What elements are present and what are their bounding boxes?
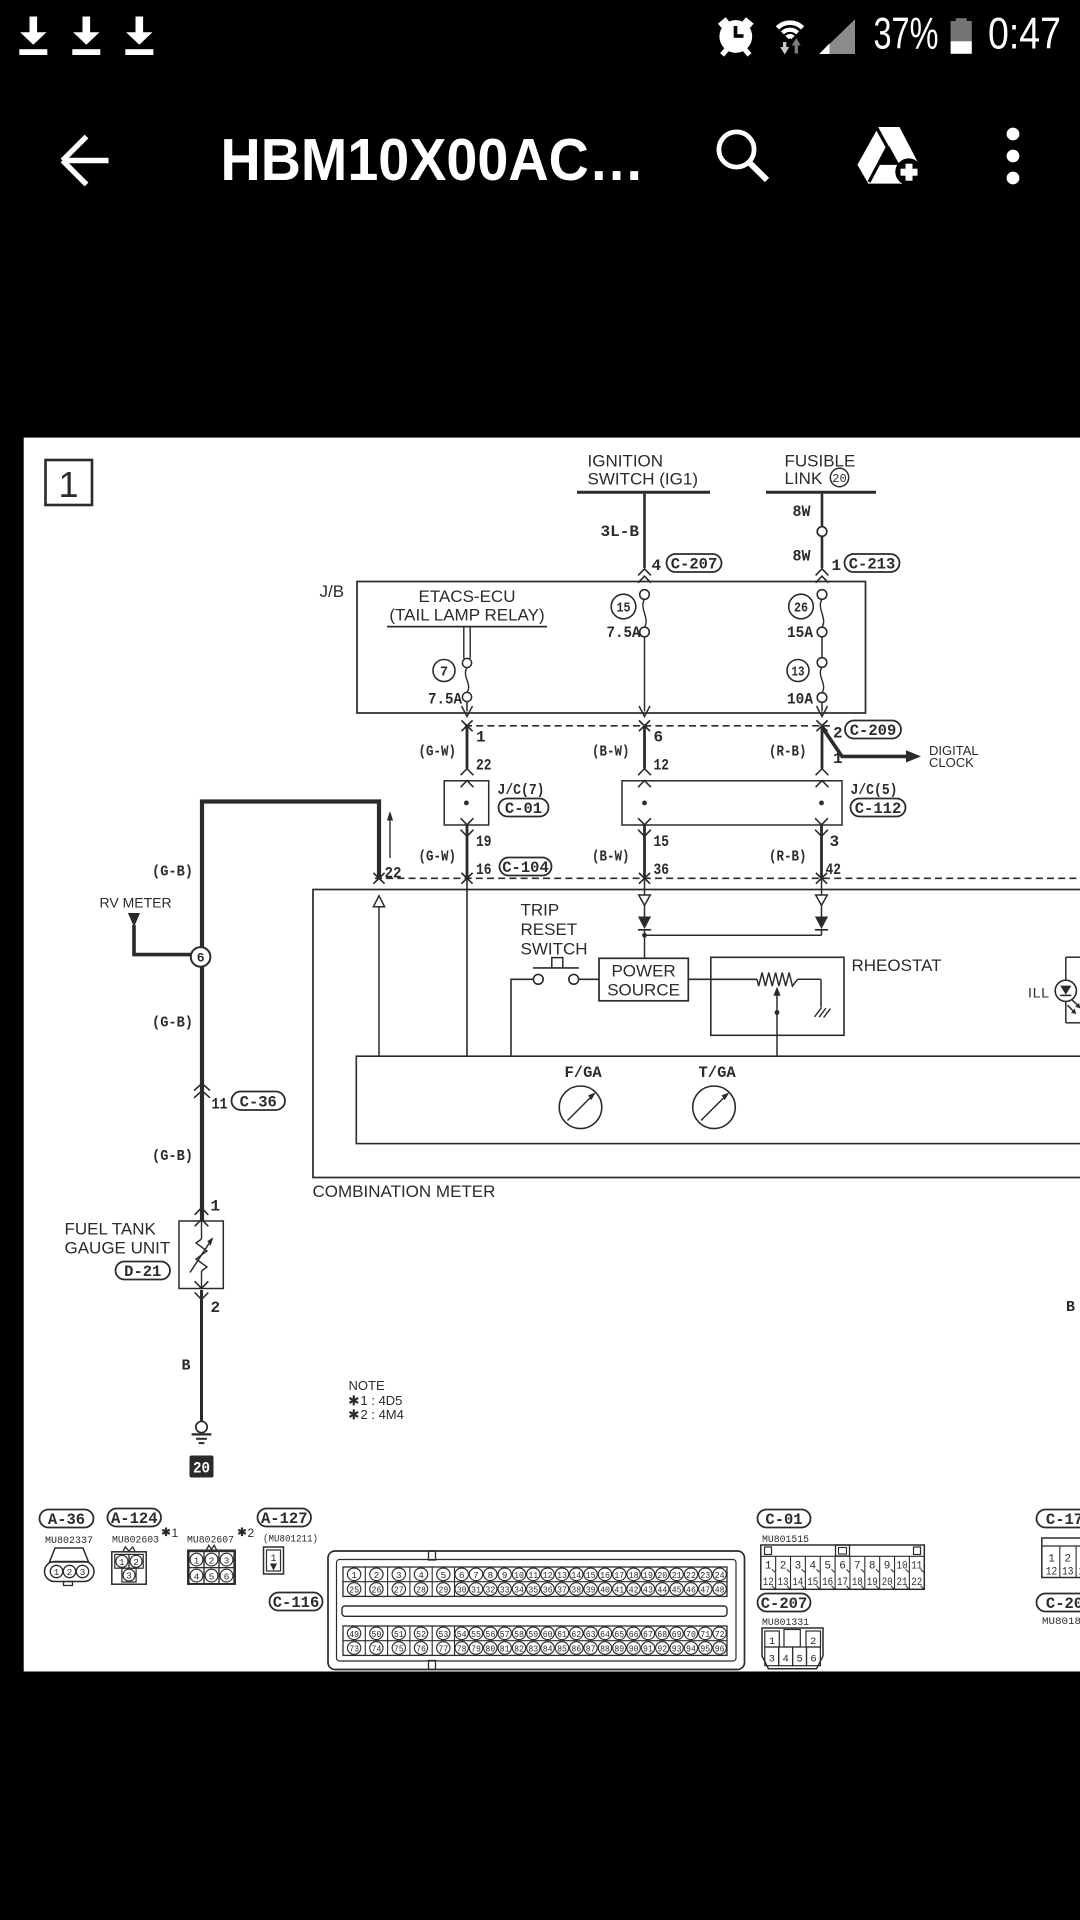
app bar back arrow <box>63 137 109 185</box>
ignition switch IG1 label <box>588 452 699 489</box>
svg-text:83: 83 <box>528 1643 538 1654</box>
svg-text:79: 79 <box>471 1643 481 1654</box>
J/B label <box>320 582 345 601</box>
svg-text:4: 4 <box>809 1560 816 1572</box>
svg-text:91: 91 <box>643 1643 653 1654</box>
fuse 15 <box>607 590 650 712</box>
svg-text:5: 5 <box>824 1560 831 1572</box>
svg-text:FUSIBLE: FUSIBLE <box>785 452 856 471</box>
svg-text:C-207: C-207 <box>671 556 718 574</box>
svg-text:30: 30 <box>457 1584 467 1595</box>
connector C-116 label <box>270 1593 323 1613</box>
svg-text:71: 71 <box>700 1629 710 1640</box>
svg-text:22: 22 <box>385 865 402 883</box>
fuse 7 <box>428 660 472 712</box>
svg-text:RESET: RESET <box>521 920 578 939</box>
dashed connector line C-209 row <box>465 725 830 727</box>
svg-text:41: 41 <box>614 1584 624 1595</box>
svg-text:C-17: C-17 <box>1046 1511 1080 1529</box>
app bar overflow menu icon <box>1007 128 1020 185</box>
chevrons at C-36 <box>194 1084 210 1098</box>
wire G-W inside meter <box>466 879 468 1056</box>
svg-text:MU802337: MU802337 <box>45 1535 93 1547</box>
svg-text:RV METER: RV METER <box>100 895 172 911</box>
crossing G-W at C-209 <box>461 720 472 731</box>
connector C-207 label <box>758 1594 811 1614</box>
svg-text:7: 7 <box>473 1570 479 1581</box>
svg-text:(MU801211): (MU801211) <box>263 1534 318 1546</box>
sheet number box 1 <box>46 460 93 505</box>
svg-text:3: 3 <box>795 1560 802 1572</box>
svg-text:93: 93 <box>672 1643 682 1654</box>
svg-text:(G-W): (G-W) <box>419 744 457 761</box>
svg-text:J/C(5): J/C(5) <box>851 782 898 799</box>
svg-text:1: 1 <box>270 1554 276 1565</box>
wire (G-B) middle run <box>200 967 204 1221</box>
svg-text:53: 53 <box>438 1629 448 1640</box>
svg-text:61: 61 <box>557 1629 567 1640</box>
svg-text:72: 72 <box>715 1629 725 1640</box>
svg-text:TRIP: TRIP <box>521 901 560 920</box>
connector C-17 label <box>1037 1510 1080 1530</box>
connector C-01 label <box>758 1510 811 1530</box>
svg-text:POWER: POWER <box>611 962 675 981</box>
svg-text:MU802607: MU802607 <box>187 1535 234 1547</box>
svg-text:3: 3 <box>80 1567 86 1578</box>
svg-text:22: 22 <box>686 1570 696 1581</box>
wire label (G-B) mid <box>152 1015 193 1032</box>
svg-text:5: 5 <box>209 1571 215 1582</box>
thick wire (G-B) top run <box>202 802 379 948</box>
svg-text:25: 25 <box>349 1584 359 1595</box>
svg-text:1: 1 <box>1048 1554 1055 1566</box>
svg-text:24: 24 <box>715 1570 725 1581</box>
svg-text:SOURCE: SOURCE <box>607 981 680 1000</box>
svg-text:C-116: C-116 <box>273 1594 320 1612</box>
svg-text:1: 1 <box>58 464 78 505</box>
svg-text:20: 20 <box>882 1577 893 1589</box>
svg-text:22: 22 <box>476 757 492 775</box>
power source box <box>599 958 688 1001</box>
J/B exit chevron B-W <box>639 706 650 717</box>
svg-text:64: 64 <box>600 1629 610 1640</box>
svg-text:42: 42 <box>629 1584 639 1595</box>
svg-text:48: 48 <box>715 1584 725 1595</box>
crossing marks at C-104 row <box>373 873 827 884</box>
ETACS relay output wire <box>462 627 471 667</box>
svg-text:B: B <box>182 1358 191 1375</box>
svg-text:13: 13 <box>778 1577 789 1589</box>
svg-text:21: 21 <box>672 1570 682 1581</box>
svg-text:12: 12 <box>654 757 670 775</box>
svg-text:2: 2 <box>1064 1554 1071 1566</box>
svg-text:A-36: A-36 <box>48 1511 85 1529</box>
svg-text:22: 22 <box>911 1577 922 1589</box>
svg-text:1: 1 <box>832 557 842 575</box>
connector A-124 label <box>108 1509 162 1529</box>
gauge T/GA <box>693 1064 737 1129</box>
svg-text:LINK: LINK <box>785 469 823 488</box>
svg-text:C-104: C-104 <box>502 859 549 877</box>
status bar wifi icon <box>777 23 802 55</box>
fuel sender variable resistor <box>190 1221 213 1289</box>
svg-text:ETACS-ECU: ETACS-ECU <box>419 587 516 606</box>
status bar battery icon <box>951 18 972 54</box>
svg-text:55: 55 <box>471 1629 481 1640</box>
status bar signal icon <box>819 19 855 54</box>
note block <box>349 1378 404 1422</box>
junction connector J/C(5) <box>622 781 906 825</box>
fuel gauge pin 2 <box>195 1281 220 1317</box>
meter inner gauge box <box>356 1056 1080 1143</box>
status bar alarm clock icon <box>718 17 754 56</box>
status bar download icon 3 <box>125 17 153 56</box>
svg-text:J/B: J/B <box>320 582 345 601</box>
svg-text:(G-B): (G-B) <box>152 864 193 881</box>
svg-text:16: 16 <box>476 861 492 879</box>
svg-text:88: 88 <box>600 1643 610 1654</box>
svg-text:C-20: C-20 <box>1046 1595 1080 1613</box>
svg-text:2: 2 <box>211 1299 221 1317</box>
connector C-213 <box>845 554 900 574</box>
svg-text:11: 11 <box>212 1096 228 1114</box>
svg-text:2: 2 <box>780 1560 787 1572</box>
J/B exit chevron G-W <box>462 706 473 717</box>
svg-text:B: B <box>1066 1299 1075 1316</box>
svg-text:C-213: C-213 <box>849 556 896 574</box>
svg-text:73: 73 <box>349 1643 359 1654</box>
svg-text:1: 1 <box>119 1557 125 1568</box>
svg-text:32: 32 <box>485 1584 495 1595</box>
svg-text:C-01: C-01 <box>505 800 542 818</box>
app bar add-to-drive icon <box>857 127 922 185</box>
svg-text:4: 4 <box>652 557 662 575</box>
svg-text:2: 2 <box>209 1555 215 1566</box>
svg-text:8W: 8W <box>793 548 812 566</box>
fuel tank gauge unit label <box>65 1220 171 1258</box>
svg-text:3: 3 <box>396 1570 402 1581</box>
svg-text:(G-B): (G-B) <box>152 1015 193 1032</box>
junction connector J/C(7) <box>444 781 548 825</box>
svg-text:RHEOSTAT: RHEOSTAT <box>852 956 942 975</box>
svg-text:80: 80 <box>485 1643 495 1654</box>
wire 3L-B <box>601 494 662 583</box>
status bar battery percent text <box>874 9 939 58</box>
ETACS-ECU tail lamp relay label <box>387 587 547 627</box>
svg-text:C-112: C-112 <box>855 800 902 818</box>
svg-text:60: 60 <box>543 1629 553 1640</box>
rheostat box <box>711 956 942 1035</box>
connector C-17 view <box>1042 1538 1080 1579</box>
RV meter stub wire <box>128 913 191 955</box>
wire (R-B) pin1 <box>769 726 828 787</box>
svg-text:8: 8 <box>487 1570 493 1581</box>
svg-text:3L-B: 3L-B <box>601 523 640 541</box>
wire (B-W) pin15/36 <box>592 818 669 879</box>
svg-text:6: 6 <box>810 1654 816 1666</box>
svg-text:1: 1 <box>211 1198 221 1216</box>
svg-text:92: 92 <box>657 1643 667 1654</box>
svg-text:1: 1 <box>194 1555 200 1566</box>
wire (G-W) pin19/16 <box>419 818 492 879</box>
svg-text:8W: 8W <box>793 503 812 521</box>
svg-text:MU801831: MU801831 <box>1042 1616 1080 1628</box>
status bar download icon 2 <box>72 17 100 56</box>
svg-text:7.5A: 7.5A <box>428 691 463 709</box>
svg-text:9: 9 <box>502 1570 508 1581</box>
svg-text:4: 4 <box>194 1571 200 1582</box>
wire (R-B) pin3/42 <box>769 818 841 879</box>
svg-text:J/C(7): J/C(7) <box>498 782 545 799</box>
node 6 circled <box>191 947 211 967</box>
connector D-21 <box>116 1262 171 1282</box>
svg-text:SWITCH: SWITCH <box>521 940 588 959</box>
svg-text:C-207: C-207 <box>761 1595 808 1613</box>
svg-text:45: 45 <box>672 1584 682 1595</box>
svg-text:57: 57 <box>500 1629 510 1640</box>
svg-text:20: 20 <box>657 1570 667 1581</box>
connector MU802607 part number <box>187 1526 255 1547</box>
svg-text:2: 2 <box>810 1636 816 1648</box>
wire label (G-B) upper <box>152 864 193 881</box>
ground number 20 <box>190 1456 214 1478</box>
digital clock branch wire <box>822 727 979 770</box>
svg-text:1: 1 <box>54 1567 60 1578</box>
diode right <box>815 879 828 935</box>
svg-text:43: 43 <box>643 1584 653 1595</box>
svg-text:1 : 4D5: 1 : 4D5 <box>361 1393 403 1408</box>
svg-text:26: 26 <box>794 601 808 617</box>
svg-text:15: 15 <box>586 1570 596 1581</box>
dashed connector line C-104 row <box>375 877 1080 879</box>
status bar download icon 1 <box>19 17 47 56</box>
connector C-20 part number <box>1042 1616 1080 1628</box>
wire (G-W) pin1/22 <box>419 726 492 787</box>
connector A-127 label <box>258 1509 312 1529</box>
connector C-207 view <box>762 1628 823 1669</box>
svg-text:23: 23 <box>700 1570 710 1581</box>
svg-text:67: 67 <box>643 1629 653 1640</box>
svg-text:54: 54 <box>457 1629 467 1640</box>
svg-text:6: 6 <box>839 1560 846 1572</box>
svg-text:81: 81 <box>500 1643 510 1654</box>
svg-text:36: 36 <box>654 861 670 879</box>
svg-text:95: 95 <box>700 1643 710 1654</box>
rheostat ground <box>815 1008 831 1018</box>
svg-text:85: 85 <box>557 1643 567 1654</box>
svg-text:8: 8 <box>869 1560 876 1572</box>
svg-text:76: 76 <box>416 1643 426 1654</box>
fuel tank gauge unit box <box>179 1221 223 1289</box>
RV METER label <box>100 895 172 911</box>
svg-text:3: 3 <box>224 1555 230 1566</box>
meter entry arrow triangle <box>373 896 384 1056</box>
svg-text:7: 7 <box>440 666 448 681</box>
svg-text:15: 15 <box>654 833 670 851</box>
svg-text:SWITCH (IG1): SWITCH (IG1) <box>588 470 699 489</box>
svg-text:2 : 4M4: 2 : 4M4 <box>361 1407 404 1422</box>
svg-text:87: 87 <box>586 1643 596 1654</box>
svg-text:(G-B): (G-B) <box>152 1148 193 1165</box>
connector C-20 label <box>1037 1594 1080 1614</box>
connector A-127 view <box>264 1547 284 1574</box>
svg-text:74: 74 <box>372 1643 382 1654</box>
svg-text:69: 69 <box>672 1629 682 1640</box>
wire B to ground <box>182 1290 202 1421</box>
svg-text:ILL: ILL <box>1028 985 1050 1001</box>
svg-text:GAUGE UNIT: GAUGE UNIT <box>65 1239 171 1258</box>
svg-text:MU802603: MU802603 <box>112 1535 159 1547</box>
svg-text:7: 7 <box>854 1560 861 1572</box>
svg-text:1: 1 <box>351 1570 357 1581</box>
svg-text:18: 18 <box>852 1577 863 1589</box>
svg-text:HBM10X00AC…: HBM10X00AC… <box>221 127 645 193</box>
svg-text:0:47: 0:47 <box>988 9 1061 58</box>
connector A-36 label <box>40 1510 94 1530</box>
ignition switch bus bar <box>577 491 710 494</box>
svg-text:49: 49 <box>349 1629 359 1640</box>
svg-text:52: 52 <box>416 1629 426 1640</box>
svg-text:2: 2 <box>67 1567 73 1578</box>
wire label (G-B) lower <box>152 1148 193 1165</box>
fuse 13 <box>787 658 827 712</box>
svg-text:MU801331: MU801331 <box>762 1617 809 1629</box>
svg-text:68: 68 <box>657 1629 667 1640</box>
trip reset switch symbol <box>511 958 599 1056</box>
svg-text:12: 12 <box>763 1577 774 1589</box>
svg-text:28: 28 <box>416 1584 426 1595</box>
J/B exit chevron R-B <box>817 706 828 717</box>
crossing B-W at C-209 <box>639 720 650 731</box>
fusible link bus bar <box>766 491 876 494</box>
svg-text:37%: 37% <box>874 9 939 58</box>
svg-text:13: 13 <box>557 1570 567 1581</box>
svg-text:19: 19 <box>643 1570 653 1581</box>
svg-text:94: 94 <box>686 1643 696 1654</box>
connector A-127 part number <box>263 1534 318 1546</box>
svg-text:16: 16 <box>822 1577 833 1589</box>
connector C-104 <box>500 858 552 878</box>
svg-text:75: 75 <box>394 1643 404 1654</box>
svg-text:96: 96 <box>715 1643 725 1654</box>
connector C-207 part number <box>762 1617 809 1629</box>
svg-text:10: 10 <box>514 1570 524 1581</box>
connector A-124 part number <box>112 1526 179 1547</box>
connector C-01 view <box>761 1545 925 1589</box>
svg-text:12: 12 <box>1046 1567 1058 1579</box>
svg-text:5: 5 <box>440 1570 446 1581</box>
svg-text:89: 89 <box>614 1643 624 1654</box>
svg-text:51: 51 <box>394 1629 404 1640</box>
svg-text:36: 36 <box>543 1584 553 1595</box>
svg-text:15: 15 <box>807 1577 818 1589</box>
svg-text:(R-B): (R-B) <box>769 849 807 866</box>
svg-text:2: 2 <box>374 1570 380 1581</box>
svg-text:65: 65 <box>614 1629 624 1640</box>
svg-text:1: 1 <box>172 1526 179 1540</box>
svg-text:59: 59 <box>528 1629 538 1640</box>
svg-text:COMBINATION METER: COMBINATION METER <box>313 1182 496 1201</box>
svg-text:16: 16 <box>600 1570 610 1581</box>
connector A-36 part number <box>45 1535 93 1547</box>
svg-text:26: 26 <box>372 1584 382 1595</box>
svg-text:11: 11 <box>528 1570 538 1581</box>
svg-text:15: 15 <box>617 601 631 617</box>
fusible link 20 label <box>785 452 856 489</box>
crossing R-B at C-209 <box>816 720 827 731</box>
svg-text:10: 10 <box>896 1560 907 1572</box>
fuse 26 <box>787 590 827 658</box>
svg-text:1: 1 <box>765 1560 772 1572</box>
svg-text:D-21: D-21 <box>124 1263 161 1281</box>
svg-text:47: 47 <box>700 1584 710 1595</box>
svg-text:NOTE: NOTE <box>349 1378 385 1393</box>
svg-text:38: 38 <box>571 1584 581 1595</box>
ILL lamp label <box>1028 985 1050 1001</box>
svg-text:C-36: C-36 <box>240 1093 277 1111</box>
rheostat wiper <box>773 987 780 1056</box>
svg-text:3: 3 <box>830 833 840 851</box>
connector A-124 view <box>112 1547 146 1584</box>
app bar search icon <box>719 132 767 180</box>
svg-text:17: 17 <box>837 1577 848 1589</box>
svg-text:19: 19 <box>476 833 492 851</box>
svg-text:6: 6 <box>224 1571 230 1582</box>
connector C-01 part number <box>762 1534 809 1546</box>
svg-text:29: 29 <box>438 1584 448 1595</box>
svg-text:39: 39 <box>586 1584 596 1595</box>
svg-text:A-124: A-124 <box>111 1510 158 1528</box>
ILL lamp LED <box>1055 957 1080 1023</box>
svg-text:2: 2 <box>248 1526 255 1540</box>
svg-text:1: 1 <box>769 1636 775 1648</box>
svg-text:34: 34 <box>514 1584 524 1595</box>
svg-text:7.5A: 7.5A <box>607 624 642 642</box>
document page <box>24 438 1080 1672</box>
svg-text:77: 77 <box>438 1643 448 1654</box>
svg-text:13: 13 <box>792 666 805 681</box>
svg-text:C-01: C-01 <box>765 1511 802 1529</box>
svg-text:(B-W): (B-W) <box>592 744 630 761</box>
svg-text:F/GA: F/GA <box>565 1064 603 1082</box>
svg-text:66: 66 <box>629 1629 639 1640</box>
ground symbol <box>192 1421 212 1443</box>
svg-text:C-209: C-209 <box>850 722 897 740</box>
svg-text:3: 3 <box>126 1571 132 1582</box>
connector C-209 <box>833 721 901 769</box>
combination meter outer box <box>313 890 1080 1178</box>
svg-text:58: 58 <box>514 1629 524 1640</box>
trip reset switch label <box>521 901 588 959</box>
svg-text:63: 63 <box>586 1629 596 1640</box>
svg-text:90: 90 <box>629 1643 639 1654</box>
svg-text:27: 27 <box>394 1584 404 1595</box>
svg-text:20: 20 <box>193 1460 210 1478</box>
status bar background <box>0 0 1080 438</box>
svg-text:86: 86 <box>571 1643 581 1654</box>
svg-text:44: 44 <box>657 1584 667 1595</box>
svg-text:84: 84 <box>543 1643 553 1654</box>
svg-text:17: 17 <box>614 1570 624 1581</box>
svg-text:(TAIL LAMP RELAY): (TAIL LAMP RELAY) <box>389 606 544 625</box>
arrow up pin22 <box>385 811 402 883</box>
svg-text:IGNITION: IGNITION <box>588 452 664 471</box>
svg-text:78: 78 <box>457 1643 467 1654</box>
svg-text:12: 12 <box>543 1570 553 1581</box>
svg-text:4: 4 <box>418 1570 424 1581</box>
svg-text:46: 46 <box>686 1584 696 1595</box>
svg-text:6: 6 <box>459 1570 465 1581</box>
